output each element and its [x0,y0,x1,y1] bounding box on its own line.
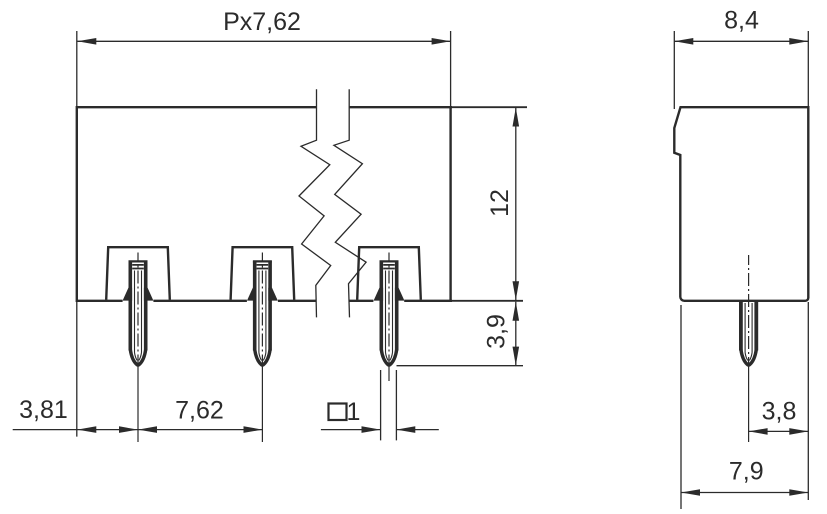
svg-text:3,81: 3,81 [19,396,68,424]
extension line body right edge up [450,31,452,107]
dimension 3,81 arrows [77,426,138,433]
extension line body top right [452,106,527,108]
svg-text:8,4: 8,4 [724,7,759,35]
svg-text:7,62: 7,62 [175,396,224,424]
extension line body left edge up [76,31,78,107]
dimension 7,9 arrows [681,489,808,496]
dimension 3,9 line [515,302,517,366]
dimension 7,9 line [681,492,808,494]
side view pin [741,255,756,442]
dimension 3,8 arrows [749,428,809,435]
svg-text:3,8: 3,8 [762,398,797,426]
pedestal bump 1 [106,247,170,300]
pedestal bump 3 [357,247,421,300]
extension line side right edge up [807,31,809,106]
extension line side lip up [673,31,675,109]
front view housing body outline [77,106,452,302]
side view body outline [674,107,808,301]
dimension bottom row line [13,429,263,431]
svg-text:3,9: 3,9 [482,314,510,349]
dimension 12 line [515,108,517,301]
extension line side right edge down [807,302,809,500]
dimension Px7,62 line [77,40,450,42]
extension line side bottom left [680,305,682,509]
extension line body left edge down [76,302,78,437]
extension lines pin3 edges [381,370,397,440]
extension line body bottom right [452,300,523,302]
pin 2 [247,253,278,443]
dimension square-1 arrows [362,426,416,433]
dimension 8,4 line [674,40,808,42]
break line right zigzag [334,89,366,317]
dimension square-1 square symbol [329,404,347,421]
svg-text:7,9: 7,9 [729,458,764,486]
extension line pin3 tip level [397,365,524,367]
dimension 12 arrows [513,108,520,301]
svg-text:1: 1 [347,398,361,426]
dimension 3,9 arrows [513,302,520,366]
dimension 7,62 arrows [138,426,263,433]
break line left zigzag [299,89,331,317]
pin 1 [123,253,154,443]
svg-text:12: 12 [486,189,514,217]
pedestal bump 2 [231,247,295,300]
dimension Px7,62 arrows [77,38,450,45]
dimension 3,8 line [749,430,809,432]
svg-text:Px7,62: Px7,62 [223,8,301,36]
dimension 8,4 arrows [674,38,808,45]
front view body bottom edge segments [77,300,452,302]
pin 3 [374,253,405,382]
dimension square-1 right line [396,429,439,431]
dimension square-1 left line [321,429,381,431]
